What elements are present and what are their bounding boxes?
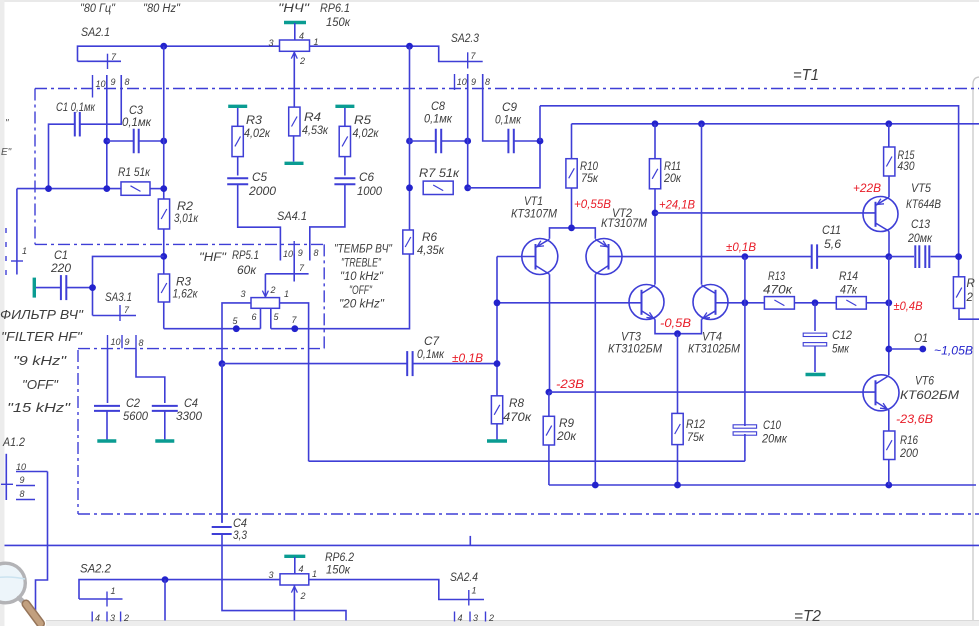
node VT1 base / VT3 base xyxy=(494,299,501,306)
C6 wire to SA4.1 pin8 xyxy=(310,184,345,260)
SA3.1 pin 9 tick xyxy=(121,335,123,348)
svg-text:C6: C6 xyxy=(359,172,375,184)
node R7 right xyxy=(464,184,471,191)
svg-text:8: 8 xyxy=(314,248,319,258)
svg-text:R14: R14 xyxy=(839,271,858,283)
node ±0,4В xyxy=(885,299,892,306)
R12 bottom wire xyxy=(677,445,679,485)
svg-text:R5: R5 xyxy=(354,115,372,127)
R9 bottom wire to rail xyxy=(548,445,550,485)
R11 bottom wire xyxy=(654,189,656,285)
wire R2 to R3 xyxy=(163,229,165,274)
C2 teal ground xyxy=(106,411,108,440)
SA2.1 pin9 wire down xyxy=(106,75,108,189)
SA3.1 pin 8 tick xyxy=(135,335,137,348)
node rail VT2 collector xyxy=(592,482,599,489)
svg-text:1: 1 xyxy=(472,586,477,596)
node C8 right xyxy=(464,138,471,145)
svg-text:4: 4 xyxy=(458,613,463,623)
svg-text:C2: C2 xyxy=(126,398,141,410)
svg-text:8: 8 xyxy=(485,77,490,87)
wire RP5.1 down x222 to C4 xyxy=(221,364,223,523)
node pin5 xyxy=(233,325,240,332)
switch SA2.1 wire xyxy=(78,46,281,61)
potentiometer RP6.1 body xyxy=(280,40,310,51)
svg-text:20мк: 20мк xyxy=(907,233,932,245)
svg-text:2: 2 xyxy=(300,591,306,601)
svg-text:2: 2 xyxy=(270,285,276,295)
svg-text:0,1мк: 0,1мк xyxy=(424,114,453,126)
VT3 VT4 emitter junction wire xyxy=(655,319,702,333)
capacitor C1 (0,1мк) xyxy=(75,112,80,137)
RP6.1 top terminal teal xyxy=(284,21,306,24)
RP5.1 wiper arrow xyxy=(264,274,266,297)
SA2.2 pin 1 tick xyxy=(106,592,108,607)
svg-text:VT6: VT6 xyxy=(915,376,935,388)
svg-text:2000: 2000 xyxy=(248,186,277,198)
svg-text:C7: C7 xyxy=(424,336,440,348)
svg-text:КТ3107М: КТ3107М xyxy=(601,218,647,230)
svg-text:±0,1В: ±0,1В xyxy=(726,242,756,254)
svg-text:C8: C8 xyxy=(431,101,446,113)
switch SA2.3 pin 10 tick xyxy=(454,74,456,90)
VT4 collector wire xyxy=(701,124,703,285)
page left border xyxy=(0,0,5,626)
C5 column teal terminal xyxy=(228,105,247,108)
node SA2.3 junction xyxy=(406,43,413,50)
capacitor C11 xyxy=(812,244,817,269)
svg-text:4,02к: 4,02к xyxy=(244,128,271,140)
svg-text:2: 2 xyxy=(488,613,494,623)
RP6.2 wiper arrow xyxy=(293,586,295,621)
capacitor C1 (220) xyxy=(36,287,61,289)
svg-text:КТ3102БМ: КТ3102БМ xyxy=(608,344,662,356)
SA3.1 pin 7 tick xyxy=(119,305,121,321)
svg-text:20к: 20к xyxy=(663,173,681,185)
switch SA2.3 wire xyxy=(410,46,483,61)
svg-text:3: 3 xyxy=(473,613,478,623)
top rail wire y106 xyxy=(540,106,959,277)
VT1 base wire down xyxy=(496,257,498,424)
node VT5 collector xyxy=(885,253,892,260)
RP6.1 wiper arrow xyxy=(293,52,295,108)
svg-text:2: 2 xyxy=(966,292,974,304)
svg-text:-0,5В: -0,5В xyxy=(660,318,691,330)
svg-text:20к: 20к xyxy=(556,431,577,443)
svg-text:+22В: +22В xyxy=(853,183,881,195)
node C12 top xyxy=(812,299,819,306)
svg-text:1: 1 xyxy=(284,289,289,299)
resistor R3 (1,62к) xyxy=(158,274,169,302)
svg-text:9: 9 xyxy=(471,77,476,87)
R1 row wire xyxy=(17,188,121,190)
svg-text:"9 kHz": "9 kHz" xyxy=(13,353,68,368)
node R11 VT5 base xyxy=(652,210,659,217)
node -23В xyxy=(546,389,553,396)
wire R3 bottom to tap6 xyxy=(164,328,261,330)
SA2.2 pin 2 tick xyxy=(120,612,122,622)
mid rail wire y461 xyxy=(309,460,745,462)
svg-text:220: 220 xyxy=(50,263,72,275)
svg-text:4,53к: 4,53к xyxy=(302,125,329,137)
svg-text:R7 51к: R7 51к xyxy=(419,168,460,180)
svg-text:R16: R16 xyxy=(900,435,919,447)
svg-text:"OFF": "OFF" xyxy=(349,285,373,297)
VT2 collector wire xyxy=(594,274,596,485)
svg-text:SA2.1: SA2.1 xyxy=(81,27,110,39)
svg-text:КТ3102БМ: КТ3102БМ xyxy=(688,344,740,356)
node R11 top xyxy=(652,120,659,127)
C4 teal ground xyxy=(164,411,166,440)
SA2.2 junction wire down xyxy=(164,580,166,621)
C12 teal ground xyxy=(806,373,826,376)
SA2.2 pin 4 tick xyxy=(91,612,93,622)
SA2.3 stub xyxy=(469,536,471,546)
RP5.1 pin1 lead xyxy=(280,303,309,461)
R4 bottom teal terminal xyxy=(293,136,295,162)
svg-text:9: 9 xyxy=(20,475,25,485)
switch SA2.2 wire xyxy=(79,580,280,599)
node O1 junction xyxy=(885,346,892,353)
svg-text:"OFF": "OFF" xyxy=(22,377,59,392)
svg-text:R10: R10 xyxy=(580,161,599,173)
magnifier cursor xyxy=(0,563,41,623)
SA3.1 pin 10 tick xyxy=(107,335,109,348)
svg-text:1000: 1000 xyxy=(357,186,383,198)
resistor R14 xyxy=(836,297,866,310)
switch SA2.3 pin 7 tick xyxy=(467,52,469,68)
node pin7 xyxy=(291,325,298,332)
C5 wire to SA4.1 pin10 xyxy=(238,184,281,260)
svg-text:"15 kHz": "15 kHz" xyxy=(7,400,72,415)
svg-text:ФИЛЬТР ВЧ": ФИЛЬТР ВЧ" xyxy=(0,307,84,322)
SA4.1 pin ticks xyxy=(293,241,295,254)
wire C11 node down xyxy=(744,257,746,303)
svg-text:3: 3 xyxy=(269,570,274,580)
node R7 left xyxy=(406,184,413,191)
svg-text:R4: R4 xyxy=(304,112,321,124)
VT3 base wire xyxy=(497,302,642,304)
svg-text:1,62к: 1,62к xyxy=(173,289,199,301)
svg-text:9: 9 xyxy=(298,248,303,258)
capacitor C9 xyxy=(508,129,513,154)
svg-text:КТ602БМ: КТ602БМ xyxy=(900,390,959,402)
svg-text:"20 kHz": "20 kHz" xyxy=(339,299,385,311)
svg-text:1: 1 xyxy=(22,246,27,256)
RP6.1 pin4 stem xyxy=(294,23,296,40)
R10 bottom wire xyxy=(571,188,573,228)
svg-text:200: 200 xyxy=(899,448,919,460)
svg-text:C9: C9 xyxy=(502,102,518,114)
svg-text:3: 3 xyxy=(269,38,274,48)
capacitor C4 (3,3) xyxy=(212,527,232,534)
RP6.2 right wire to SA2.4 xyxy=(309,580,484,600)
svg-text:C3: C3 xyxy=(129,105,144,117)
resistor R17 xyxy=(953,277,964,309)
potentiometer RP6.2 body xyxy=(280,574,309,585)
resistor R11 xyxy=(654,124,656,159)
svg-text:3,01к: 3,01к xyxy=(174,213,198,225)
C2 wire from SA3.1 pin10 xyxy=(107,348,109,403)
svg-text:6: 6 xyxy=(252,312,257,322)
block boundary dash vertical x324 xyxy=(323,244,325,348)
node rail R16 xyxy=(885,482,892,489)
capacitor C8 xyxy=(410,140,436,142)
block boundary =T1 top dash line xyxy=(35,88,979,90)
transistor VT3 xyxy=(629,285,664,320)
svg-text:=T2: =T2 xyxy=(794,608,821,625)
R17 bottom wire xyxy=(959,308,979,319)
switch SA2.2 lower arm xyxy=(79,598,123,600)
SA2.3 junction wire down xyxy=(409,46,411,188)
SA4.1 pin9 wire down xyxy=(293,254,295,282)
svg-text:SA2.3: SA2.3 xyxy=(451,33,480,45)
svg-text:8: 8 xyxy=(139,338,144,348)
supply rail wire y124 xyxy=(572,123,979,125)
wire tap5 to R6 xyxy=(271,254,410,329)
switch SA2.1 pin 10 tick xyxy=(92,75,94,98)
R16 bottom wire xyxy=(888,460,890,486)
svg-text:9: 9 xyxy=(125,337,130,347)
svg-text:4: 4 xyxy=(95,613,100,623)
svg-text:C4: C4 xyxy=(184,398,198,410)
C4 wire from SA3.1 pin8 xyxy=(136,348,165,403)
svg-text:8: 8 xyxy=(20,489,25,499)
block boundary dash line y348 xyxy=(78,348,324,350)
svg-text:10: 10 xyxy=(16,462,26,472)
svg-text:1: 1 xyxy=(312,569,317,579)
svg-text:~1,05В: ~1,05В xyxy=(934,346,973,358)
C3 wires xyxy=(107,140,134,142)
wire RP5.1 pin3 down xyxy=(221,364,223,522)
node R8 top xyxy=(494,360,501,367)
node C8 left xyxy=(406,138,413,145)
svg-text:R3: R3 xyxy=(246,115,263,127)
svg-text:4,35к: 4,35к xyxy=(417,245,445,257)
svg-text:R1 51к: R1 51к xyxy=(118,167,150,179)
resistor R9 xyxy=(548,392,550,416)
svg-text:5600: 5600 xyxy=(123,411,149,423)
svg-text:R13: R13 xyxy=(768,271,785,283)
svg-text:±0,4В: ±0,4В xyxy=(894,301,923,313)
svg-text:4: 4 xyxy=(299,564,304,574)
block boundary left dash line SA2.1 xyxy=(34,89,36,245)
svg-text:C10: C10 xyxy=(763,420,782,432)
potentiometer RP5.1 body xyxy=(251,298,280,309)
svg-text:"TREBLE": "TREBLE" xyxy=(341,257,382,269)
svg-text:RP6.1: RP6.1 xyxy=(320,3,350,15)
svg-text:+24,1В: +24,1В xyxy=(659,200,695,212)
C4 3,3 bottom wire xyxy=(222,534,346,621)
svg-text:RP5.1: RP5.1 xyxy=(232,250,259,262)
svg-text:C13: C13 xyxy=(911,219,931,231)
resistor R8 xyxy=(491,396,502,424)
svg-text:0,1мк: 0,1мк xyxy=(417,349,445,361)
resistor R3 (4,02к) xyxy=(237,108,239,126)
svg-text:"10 kHz": "10 kHz" xyxy=(340,271,384,283)
svg-text:R6: R6 xyxy=(422,232,438,244)
svg-text:+0,55В: +0,55В xyxy=(574,199,611,211)
SA2.4 pin 1 tick xyxy=(468,590,470,606)
svg-text:3: 3 xyxy=(241,289,246,299)
svg-text:-23В: -23В xyxy=(556,379,584,391)
RP6.1 right wire to SA2.3 xyxy=(310,45,410,47)
resistor R4 xyxy=(289,107,300,136)
node R1 left b xyxy=(103,185,110,192)
SA2.4 pin 3 tick xyxy=(469,612,471,622)
VT2 base rail wire xyxy=(622,256,812,258)
node R1 left a xyxy=(45,185,52,192)
svg-text:R11: R11 xyxy=(664,161,681,173)
svg-text:470к: 470к xyxy=(503,412,532,424)
transistor VT5 xyxy=(863,197,898,232)
svg-text:КТ644В: КТ644В xyxy=(906,199,941,211)
input pin 1 tick xyxy=(11,260,23,262)
svg-text:R9: R9 xyxy=(559,418,575,430)
capacitor C4 (3300) xyxy=(152,406,178,411)
switch SA2.1 lower arm xyxy=(78,60,122,62)
R8 teal ground xyxy=(496,424,498,440)
wire VT4 base to R13 xyxy=(728,302,764,304)
svg-text:C4: C4 xyxy=(233,518,247,530)
block boundary =T2 dash line y514 xyxy=(78,513,979,515)
svg-text:3,3: 3,3 xyxy=(233,530,248,542)
R7 wire to C9 node xyxy=(468,141,540,188)
resistor R2 xyxy=(158,199,169,229)
svg-text:A1.2: A1.2 xyxy=(2,437,25,449)
resistor R16 xyxy=(888,410,890,431)
node R1 right xyxy=(160,185,167,192)
page bottom bar xyxy=(46,621,979,626)
svg-text:2: 2 xyxy=(123,613,129,623)
svg-text:R8: R8 xyxy=(509,398,525,410)
svg-text:": " xyxy=(5,118,9,129)
capacitor C2 xyxy=(94,406,120,411)
long rail wire y545 xyxy=(5,544,979,546)
emitter junction wire xyxy=(550,228,596,239)
svg-text:3300: 3300 xyxy=(176,411,203,423)
C1 right wire to pin8 xyxy=(80,75,121,124)
C1 left wire xyxy=(49,124,75,188)
branch wire to SA3.1 xyxy=(93,256,164,315)
block boundary dash line y244 xyxy=(35,243,324,245)
wire emitter junction to R12 xyxy=(677,334,679,414)
svg-text:10: 10 xyxy=(283,249,293,259)
node right rail C13 xyxy=(955,253,962,260)
resistor R15 xyxy=(888,124,890,147)
svg-text:8: 8 xyxy=(125,77,130,87)
svg-text:"80 Hz": "80 Hz" xyxy=(143,3,181,15)
svg-text:5,6: 5,6 xyxy=(824,239,842,251)
svg-text:0,1мк: 0,1мк xyxy=(122,117,152,129)
capacitor C7 xyxy=(222,363,407,365)
capacitor C12 xyxy=(814,303,816,331)
svg-text:C12: C12 xyxy=(832,330,853,342)
capacitor C13 xyxy=(915,245,929,268)
node emitter junction VT3 VT4 xyxy=(674,330,681,337)
wire A1.2 pin10 down xyxy=(36,472,48,621)
svg-text:5мк: 5мк xyxy=(832,344,849,356)
svg-text:SA2.4: SA2.4 xyxy=(450,572,478,584)
C13 wires xyxy=(889,256,914,258)
svg-text:20мк: 20мк xyxy=(761,434,787,446)
resistor R10 xyxy=(566,159,577,188)
svg-text:VT4: VT4 xyxy=(702,332,722,344)
VT6 base wire xyxy=(549,391,876,393)
svg-text:C5: C5 xyxy=(252,172,268,184)
svg-text:"80 Гц": "80 Гц" xyxy=(80,3,116,15)
bottom rail wire y485 xyxy=(549,484,976,486)
RP5.1 pin3 lead xyxy=(222,303,251,364)
resistor R7 xyxy=(423,181,453,194)
node VT4 base R13 C10 xyxy=(742,299,749,306)
svg-text:4: 4 xyxy=(299,31,304,41)
A1.2 input tick xyxy=(1,483,13,485)
svg-text:1: 1 xyxy=(111,586,116,596)
wire VT5 collector down xyxy=(888,257,890,376)
svg-text:47к: 47к xyxy=(840,285,858,297)
svg-text:"НЧ": "НЧ" xyxy=(278,3,310,15)
svg-text:470к: 470к xyxy=(763,285,793,297)
right scroll panel xyxy=(973,77,979,620)
VT5 base wire xyxy=(655,212,876,214)
A1.2 input wire xyxy=(5,454,7,500)
node VT4 collector top xyxy=(698,120,705,127)
R5 column teal terminal xyxy=(335,105,354,108)
C1 (220) teal terminal xyxy=(33,278,36,298)
left edge dash fragment xyxy=(5,228,7,278)
node C3 left xyxy=(103,138,110,145)
capacitor C6 xyxy=(344,157,346,176)
svg-text:C11: C11 xyxy=(822,225,841,237)
capacitor C5 xyxy=(237,157,239,176)
node SA2.1 junction xyxy=(160,43,167,50)
capacitor C3 xyxy=(134,129,139,154)
VT5 collector wire xyxy=(888,231,890,256)
node RP5.1 pin3 to C7 xyxy=(219,360,226,367)
svg-text:VT3: VT3 xyxy=(621,332,642,344)
wire C9 node to top rail xyxy=(539,106,541,141)
svg-text:10: 10 xyxy=(96,79,106,89)
svg-text:RP6.2: RP6.2 xyxy=(325,552,355,564)
SA2.3 pin9 wire down xyxy=(467,74,469,188)
terminal O1 xyxy=(889,348,921,350)
svg-text:VT5: VT5 xyxy=(911,183,932,195)
node rail R12 xyxy=(674,482,681,489)
R1 right wire xyxy=(150,188,164,190)
VT1 collector wire xyxy=(549,274,551,392)
RP6.2 pin4 stem xyxy=(294,557,296,574)
svg-text:Е": Е" xyxy=(1,147,12,158)
R10 top corner xyxy=(571,124,573,159)
svg-text:3: 3 xyxy=(110,613,115,623)
svg-text:75к: 75к xyxy=(687,432,705,444)
SA2.4 pin 2 tick xyxy=(485,612,487,622)
svg-text:R2: R2 xyxy=(177,201,194,213)
svg-text:"FILTER HF": "FILTER HF" xyxy=(1,329,84,344)
svg-text:=T1: =T1 xyxy=(793,67,819,84)
svg-text:SA4.1: SA4.1 xyxy=(277,211,307,223)
svg-text:75к: 75к xyxy=(581,173,599,185)
wire x164 top xyxy=(163,46,165,199)
svg-text:VT1: VT1 xyxy=(524,196,543,208)
RP5.1 tap 6 xyxy=(260,308,262,328)
resistor R6 xyxy=(403,230,414,254)
wire R14 to VT5 collector node xyxy=(866,302,889,304)
switch SA2.1 pin 7 tick xyxy=(107,54,109,69)
svg-text:4,02к: 4,02к xyxy=(353,128,380,140)
svg-text:10: 10 xyxy=(457,77,467,87)
